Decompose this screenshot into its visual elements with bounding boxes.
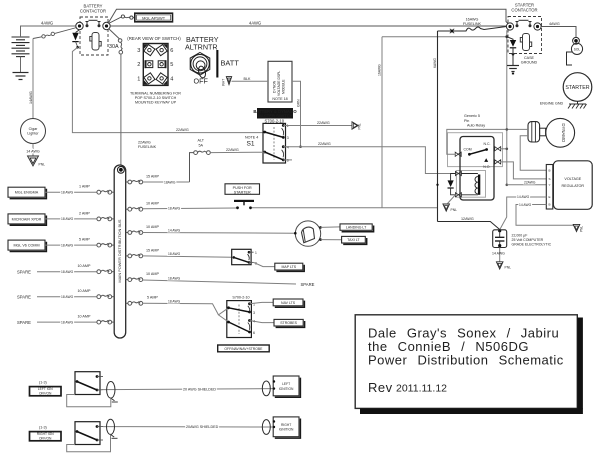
svg-text:DYNON: DYNON bbox=[273, 80, 277, 93]
svg-text:18 AWG: 18 AWG bbox=[168, 276, 181, 280]
wire dynamo net to regulator 22AWG bbox=[507, 184, 547, 186]
fuse 15A (map lts) bbox=[126, 254, 143, 258]
load box TAXI LT bbox=[342, 236, 366, 243]
svg-text:MAIN POWER DISTRIBUTION BUS: MAIN POWER DISTRIBUTION BUS bbox=[117, 219, 122, 283]
svg-text:NAV LTS: NAV LTS bbox=[281, 301, 296, 305]
svg-text:SPARE: SPARE bbox=[17, 295, 31, 300]
wire bus to map switch 18 AWG bbox=[143, 256, 232, 257]
ground CASE GROUND bbox=[507, 66, 519, 72]
svg-text:10 AMP: 10 AMP bbox=[146, 225, 159, 229]
diode (relay coil) bbox=[451, 174, 456, 181]
panel ground PNL (cigar lighter) bbox=[28, 156, 39, 166]
wire 6AWG vertical bbox=[437, 31, 439, 222]
switch LEFT IGN bbox=[75, 372, 100, 395]
wire shield drain loop left ign bbox=[67, 395, 111, 407]
pin numbers rear view bbox=[137, 48, 173, 82]
svg-text:SPARE: SPARE bbox=[17, 320, 31, 325]
switch rear terminal 3 bbox=[144, 45, 155, 56]
switch rear terminal 2 bbox=[146, 61, 153, 68]
svg-text:20 AWG SHIELDED: 20 AWG SHIELDED bbox=[183, 387, 216, 391]
svg-text:N.C.: N.C. bbox=[484, 142, 491, 146]
svg-text:6: 6 bbox=[287, 159, 289, 163]
svg-text:1: 1 bbox=[287, 124, 289, 128]
battery contactor (dashed box) bbox=[80, 17, 108, 55]
battery B1 bbox=[12, 37, 30, 57]
svg-text:SOL: SOL bbox=[574, 48, 581, 52]
svg-text:14 AWG: 14 AWG bbox=[492, 252, 505, 256]
svg-text:Lighter: Lighter bbox=[27, 132, 39, 136]
node nav switch feed fork bbox=[219, 308, 229, 322]
voltage regulator pin strip bbox=[546, 165, 553, 210]
svg-text:STARTER: STARTER bbox=[234, 190, 251, 194]
switch rear terminal 5 bbox=[158, 61, 165, 68]
svg-text:22AWG: 22AWG bbox=[524, 180, 536, 184]
fuse 10A spare2 bbox=[97, 295, 114, 299]
panel ground PNL (capacitor) bbox=[496, 262, 503, 269]
svg-text:(1-3): (1-3) bbox=[39, 380, 47, 384]
capacitor C1 22000uF bbox=[498, 229, 501, 232]
wire S1-1 to panel 22AWG bbox=[283, 125, 352, 127]
fuse (MGL APSWT feed) bbox=[109, 15, 135, 24]
wire right ign 20AWG SHIELDED bbox=[103, 426, 273, 428]
svg-text:4AWG: 4AWG bbox=[41, 21, 53, 26]
switch RIGHT IGN bbox=[75, 422, 100, 445]
svg-text:Generic 5: Generic 5 bbox=[464, 114, 480, 118]
svg-text:15 AMP: 15 AMP bbox=[146, 248, 159, 252]
wire top feed to starter contactor bbox=[108, 9, 510, 25]
svg-text:5A: 5A bbox=[199, 143, 204, 147]
svg-text:E: E bbox=[548, 195, 550, 199]
svg-text:18 AWG: 18 AWG bbox=[168, 299, 181, 303]
relay coil bbox=[478, 175, 480, 195]
svg-text:25 Volt COMPUTER: 25 Volt COMPUTER bbox=[512, 238, 544, 242]
svg-text:22AWG: 22AWG bbox=[176, 128, 189, 132]
svg-text:N.O.: N.O. bbox=[483, 165, 490, 169]
svg-text:PUSH FOR: PUSH FOR bbox=[233, 186, 252, 190]
fuse 10A spare3 bbox=[97, 320, 114, 324]
svg-text:22AWG: 22AWG bbox=[317, 121, 330, 125]
connector arrow PNL (S1-1) bbox=[352, 122, 358, 129]
wire left ign 20 AWG SHIELDED bbox=[103, 389, 273, 390]
fuse 1A bbox=[97, 190, 114, 194]
svg-text:16AWG: 16AWG bbox=[378, 64, 382, 76]
svg-text:3: 3 bbox=[253, 311, 255, 315]
svg-text:4: 4 bbox=[170, 76, 173, 82]
svg-text:MOUNTED KEYWAY UP: MOUNTED KEYWAY UP bbox=[135, 101, 177, 105]
svg-text:S: S bbox=[548, 177, 550, 181]
wire to cigar lighter 14AWG bbox=[32, 39, 34, 119]
svg-text:10 AMP: 10 AMP bbox=[78, 289, 91, 293]
svg-text:MGL V6 COMM: MGL V6 COMM bbox=[13, 244, 39, 248]
wire ALT fuse to S1-5 22AWG bbox=[210, 151, 264, 153]
contactor contact posts bbox=[86, 20, 101, 27]
svg-text:B: B bbox=[548, 168, 550, 172]
wire SPARE3 18 AWG bbox=[37, 321, 97, 323]
wire MGL ENIGMA 18 AWG bbox=[45, 191, 97, 193]
svg-text:10 AMP: 10 AMP bbox=[146, 202, 159, 206]
svg-text:1: 1 bbox=[137, 76, 140, 82]
svg-text:10 AMP: 10 AMP bbox=[146, 272, 159, 276]
svg-text:3: 3 bbox=[137, 48, 140, 54]
wire starter contactor to solenoid 4AWG bbox=[541, 27, 576, 39]
wire MGL V6 COMM 18 AWG bbox=[45, 244, 97, 246]
voltage display box NOTE 18 bbox=[268, 61, 292, 102]
wire battery bottom to ground bbox=[20, 57, 22, 73]
switch S1 S700-2-10 bbox=[263, 123, 286, 163]
svg-text:1: 1 bbox=[255, 251, 257, 255]
wire dynamo net right vertical bbox=[506, 30, 508, 185]
shield loop (right ignition box end) bbox=[262, 420, 270, 435]
svg-text:Power Distribution Schematic: Power Distribution Schematic bbox=[368, 352, 564, 367]
label box RIGHT IGN OFF/ON bbox=[30, 432, 62, 441]
fuse (cigar lighter feed) bbox=[33, 28, 77, 39]
wire regulator 14 AWG to capacitor bbox=[500, 197, 547, 230]
inverse label box (battery/alternator switch) bbox=[258, 109, 293, 119]
contactor terminal right bbox=[103, 22, 110, 29]
panel ground PNL (relay) bbox=[443, 204, 450, 211]
switch rear terminal 6 bbox=[156, 45, 167, 56]
svg-text:14 AWG: 14 AWG bbox=[168, 229, 181, 233]
wire rotary to LANDING LT bbox=[321, 226, 341, 229]
wire NC to dynamo net bbox=[501, 148, 507, 150]
svg-text:NOTE 18: NOTE 18 bbox=[272, 97, 287, 101]
svg-text:18 AWG: 18 AWG bbox=[61, 217, 74, 221]
svg-text:15 AMP: 15 AMP bbox=[146, 174, 159, 178]
svg-text:IGNITION: IGNITION bbox=[279, 428, 294, 432]
svg-text:(REAR VIEW OF SWITCH): (REAR VIEW OF SWITCH) bbox=[127, 36, 181, 41]
svg-text:RIGHT: RIGHT bbox=[281, 423, 291, 427]
wire SPARE2 18 AWG bbox=[37, 296, 97, 298]
svg-text:18 AWG: 18 AWG bbox=[61, 243, 74, 247]
node solenoid terminal bbox=[573, 37, 580, 44]
svg-text:COM: COM bbox=[464, 148, 472, 152]
svg-text:STARTER: STARTER bbox=[565, 85, 589, 91]
svg-text:4AWG: 4AWG bbox=[249, 20, 261, 25]
wire starter button to relay section 16AWG bbox=[252, 207, 382, 209]
wire battery top to contactor 4AWG bbox=[21, 26, 77, 37]
load box MGL V6 COMM bbox=[8, 240, 45, 250]
load box RIGHT IGNITION bbox=[273, 417, 299, 437]
svg-text:Cigar: Cigar bbox=[29, 127, 39, 131]
starter contactor terminal left bbox=[506, 23, 513, 30]
svg-text:6: 6 bbox=[253, 331, 255, 335]
svg-text:2011.11.12: 2011.11.12 bbox=[396, 383, 447, 395]
contactor terminal left bbox=[76, 22, 83, 29]
load box NAV LTS bbox=[273, 299, 303, 306]
wire 30A fuse to main bus bbox=[120, 54, 122, 166]
wire 16AWG vertical (dynamo net left) bbox=[381, 37, 383, 208]
load box LANDING LT bbox=[340, 224, 372, 230]
wire capacitor to panel ground 14 AWG bbox=[499, 248, 501, 262]
svg-text:SPARE: SPARE bbox=[301, 282, 315, 287]
svg-text:POP S700-2-10 SWITCH: POP S700-2-10 SWITCH bbox=[135, 96, 177, 100]
svg-text:MICROAIR XPDR: MICROAIR XPDR bbox=[12, 217, 42, 221]
svg-text:10 AMP: 10 AMP bbox=[78, 315, 91, 319]
label box OFF/NAV/NAV+STROBE bbox=[218, 345, 270, 352]
svg-text:14 AWG: 14 AWG bbox=[517, 195, 530, 199]
svg-text:CASE: CASE bbox=[524, 56, 535, 60]
svg-text:Auto Relay: Auto Relay bbox=[467, 124, 485, 128]
svg-text:(1-3): (1-3) bbox=[39, 425, 47, 429]
diode (starter contactor coil) bbox=[507, 37, 513, 40]
svg-text:GRN: GRN bbox=[296, 99, 300, 107]
load box MAP LTS bbox=[275, 263, 303, 270]
wire contactor coil to S1 terminal 2 (22AWG fuselink) bbox=[72, 47, 264, 132]
svg-text:MGL ENIGMA: MGL ENIGMA bbox=[15, 191, 39, 195]
wire bus to starter button 18 AWG bbox=[143, 207, 237, 210]
fuse 10A (landing/taxi) bbox=[126, 231, 143, 235]
svg-text:18 AWG: 18 AWG bbox=[61, 320, 74, 324]
svg-text:FUSELINK: FUSELINK bbox=[138, 145, 157, 149]
svg-text:OFF/NAV/NAV+STROBE: OFF/NAV/NAV+STROBE bbox=[224, 347, 263, 351]
svg-text:PNL: PNL bbox=[39, 163, 46, 167]
svg-text:Pin: Pin bbox=[464, 119, 469, 123]
push button PUSH FOR STARTER bbox=[225, 184, 260, 195]
svg-text:18 AWG: 18 AWG bbox=[168, 252, 181, 256]
fuse 10A spare1 bbox=[97, 270, 114, 274]
svg-text:LANDING LT: LANDING LT bbox=[346, 226, 367, 230]
fuse 10A (spare feed) bbox=[126, 278, 143, 282]
wire NO to regulator bbox=[501, 162, 547, 179]
svg-text:IGNITION: IGNITION bbox=[279, 387, 294, 391]
cigar lighter socket bbox=[21, 119, 46, 144]
wire dynamo output to net bbox=[507, 128, 528, 130]
panel ground PNL (regulator) bbox=[573, 224, 580, 231]
shield loop (left ignition box end) bbox=[262, 381, 270, 396]
svg-text:OFF: OFF bbox=[194, 77, 209, 86]
wire bus to nav switch 18 AWG bbox=[143, 303, 219, 315]
svg-text:22,000 µF: 22,000 µF bbox=[512, 234, 528, 238]
node (contactor coil junction) bbox=[76, 42, 78, 47]
wire cigar lighter to panel ground bbox=[32, 144, 34, 156]
svg-text:14AWG: 14AWG bbox=[29, 91, 33, 104]
wire bus to ALT fuse 18AWG bbox=[143, 181, 190, 183]
fuse 2A bbox=[97, 217, 114, 221]
svg-text:5: 5 bbox=[170, 62, 173, 68]
svg-text:6: 6 bbox=[170, 48, 173, 54]
svg-text:MAP LTS: MAP LTS bbox=[281, 265, 296, 269]
wire bus spare 18 AWG bbox=[143, 280, 296, 284]
svg-text:VOLTAGE: VOLTAGE bbox=[564, 177, 581, 181]
label box LEFT IGN OFF/ON bbox=[30, 387, 62, 396]
switch rear terminal 1 bbox=[144, 73, 155, 84]
wire COM feed from dynamo net bbox=[447, 129, 507, 154]
svg-text:ALT: ALT bbox=[198, 139, 205, 143]
svg-text:FUSELINK: FUSELINK bbox=[463, 22, 482, 26]
wire main feed 4AWG bbox=[110, 25, 509, 27]
svg-text:WHT: WHT bbox=[222, 79, 226, 86]
wire rotary to TAXI LT bbox=[321, 239, 342, 241]
svg-text:4: 4 bbox=[287, 146, 289, 150]
svg-text:MGL APSWT: MGL APSWT bbox=[142, 15, 166, 20]
dynamo bbox=[546, 118, 575, 147]
wire dynamo second lead to regulator bbox=[520, 136, 546, 170]
fuse 5A (nav/strobe) bbox=[126, 301, 143, 305]
ground battery bbox=[13, 73, 29, 80]
wire regulator 14 AWG to panel ground bbox=[516, 205, 574, 226]
load box STROBES bbox=[274, 319, 303, 326]
svg-text:PNL: PNL bbox=[358, 123, 362, 129]
wire S1-4 to relay coil 22AWG bbox=[283, 147, 456, 174]
svg-text:16AWG: 16AWG bbox=[466, 17, 479, 21]
svg-text:18 AWG: 18 AWG bbox=[168, 207, 181, 211]
load box MICROAIR XPDR bbox=[8, 214, 45, 224]
svg-text:CONTACTOR: CONTACTOR bbox=[80, 9, 106, 14]
starter motor bbox=[563, 73, 592, 102]
wire map switch to MAP LTS box bbox=[254, 262, 275, 266]
svg-text:TAXI LT: TAXI LT bbox=[347, 238, 360, 242]
svg-text:18 AWG: 18 AWG bbox=[61, 191, 74, 195]
dynamo connector bbox=[528, 122, 540, 142]
shield loop (right ign switch end) bbox=[107, 419, 115, 434]
svg-text:14 AWG: 14 AWG bbox=[519, 203, 532, 207]
svg-text:6AWG: 6AWG bbox=[433, 58, 437, 68]
fuse 10A (starter button) bbox=[126, 207, 143, 211]
svg-text:SPARE: SPARE bbox=[17, 270, 31, 275]
contactor coil bbox=[90, 33, 101, 51]
switch MAP LTS (toggle) bbox=[232, 249, 251, 264]
fuse 15A (alternator field feed) bbox=[126, 180, 143, 184]
svg-text:OFF/ON: OFF/ON bbox=[39, 391, 52, 395]
relay COM terminal bbox=[455, 152, 461, 156]
svg-text:18 AWG: 18 AWG bbox=[61, 295, 74, 299]
svg-text:B: B bbox=[548, 203, 550, 207]
svg-text:CONTACTOR: CONTACTOR bbox=[511, 7, 537, 12]
svg-text:18 AWG: 18 AWG bbox=[61, 270, 74, 274]
svg-text:ENGINE GND: ENGINE GND bbox=[540, 101, 564, 105]
svg-text:REGULATOR: REGULATOR bbox=[561, 184, 584, 188]
wire nav switch to NAV LTS bbox=[250, 302, 274, 303]
connector arrow WHT bbox=[226, 77, 231, 85]
svg-text:3: 3 bbox=[287, 136, 289, 140]
svg-text:PNL: PNL bbox=[580, 226, 584, 232]
svg-text:OFF/ON: OFF/ON bbox=[39, 436, 52, 440]
node bus top terminal bbox=[118, 166, 125, 173]
svg-text:S700-2-10: S700-2-10 bbox=[265, 118, 285, 123]
svg-text:S700-2-10: S700-2-10 bbox=[232, 296, 249, 300]
rotary switch (landing/taxi lights) bbox=[295, 221, 320, 246]
wire 12AWG to capacitor bbox=[438, 222, 500, 230]
svg-text:MODULE: MODULE bbox=[282, 79, 286, 94]
svg-text:12AWG: 12AWG bbox=[461, 217, 474, 221]
title block bbox=[355, 315, 577, 409]
svg-text:30A: 30A bbox=[109, 44, 119, 50]
load box MGL ENIGMA bbox=[8, 187, 45, 197]
wire GRN voltage display to S1 bbox=[292, 81, 301, 146]
wire bus to light switch 14 AWG bbox=[143, 232, 296, 235]
svg-text:22AWG: 22AWG bbox=[318, 142, 331, 146]
svg-text:2 AMP: 2 AMP bbox=[79, 211, 90, 215]
shield loop (left ign switch end) bbox=[107, 382, 115, 399]
svg-text:NOTE 4: NOTE 4 bbox=[245, 136, 258, 140]
relay arm bbox=[469, 150, 486, 155]
node splice (fuselink) bbox=[451, 30, 454, 33]
svg-text:4AWG: 4AWG bbox=[549, 22, 560, 26]
diode (battery contactor) bbox=[76, 30, 80, 33]
svg-text:22AWG: 22AWG bbox=[226, 148, 239, 152]
svg-text:GRADE ELECTROLYTIC: GRADE ELECTROLYTIC bbox=[512, 243, 552, 247]
relay coil terminal top bbox=[455, 171, 461, 175]
load box LEFT IGNITION bbox=[273, 376, 299, 396]
starter contactor coil bbox=[520, 34, 531, 51]
svg-text:18AWG: 18AWG bbox=[164, 180, 176, 184]
wire shield drain loop right ign bbox=[67, 435, 111, 452]
bus MAIN POWER DISTRIBUTION BUS bbox=[114, 165, 126, 338]
svg-text:PNL: PNL bbox=[505, 266, 512, 270]
svg-text:BLK: BLK bbox=[244, 77, 252, 81]
svg-text:TERMINAL NUMBERING FOR: TERMINAL NUMBERING FOR bbox=[130, 92, 181, 96]
svg-text:LEFT: LEFT bbox=[282, 382, 290, 386]
voltage regulator bbox=[553, 161, 592, 210]
svg-text:5 AMP: 5 AMP bbox=[147, 296, 158, 300]
wire S1-6 stub bbox=[283, 159, 292, 161]
svg-text:BATT: BATT bbox=[221, 59, 240, 68]
svg-text:STROBES: STROBES bbox=[280, 321, 297, 325]
svg-text:14 AWG: 14 AWG bbox=[26, 150, 40, 154]
svg-text:ALTRNTR: ALTRNTR bbox=[185, 43, 218, 52]
svg-text:Rev: Rev bbox=[368, 380, 393, 395]
wire MICROAIR XPDR 18 AWG bbox=[45, 218, 97, 220]
wire dynamo net top bbox=[382, 36, 507, 38]
relay coil terminal bottom bbox=[455, 193, 461, 197]
wire SPARE1 18 AWG bbox=[37, 271, 97, 273]
switch rear terminal 4 bbox=[156, 73, 167, 84]
starter contactor terminal right bbox=[534, 23, 541, 30]
svg-text:20AWG SHIELDED: 20AWG SHIELDED bbox=[186, 425, 219, 429]
svg-text:GROUND: GROUND bbox=[521, 61, 538, 65]
svg-text:S1: S1 bbox=[247, 141, 255, 148]
svg-text:VOLTAGE DSPL: VOLTAGE DSPL bbox=[277, 71, 281, 96]
wire relay coil to panel ground bbox=[448, 195, 456, 204]
svg-text:Y: Y bbox=[548, 183, 550, 187]
starter solenoid SOL bbox=[571, 43, 582, 54]
svg-text:5 AMP: 5 AMP bbox=[79, 238, 90, 242]
label box MGL APSWT bbox=[135, 13, 173, 22]
svg-text:DYNAMO: DYNAMO bbox=[561, 123, 566, 143]
wire nav switch to STROBES bbox=[250, 321, 275, 323]
svg-text:1 AMP: 1 AMP bbox=[79, 185, 90, 189]
svg-text:PNL: PNL bbox=[451, 208, 458, 212]
svg-text:2: 2 bbox=[137, 62, 140, 68]
fuse 5A bbox=[97, 243, 114, 247]
wire BLK to voltage display bbox=[232, 80, 269, 82]
svg-text:10 AMP: 10 AMP bbox=[78, 264, 91, 268]
